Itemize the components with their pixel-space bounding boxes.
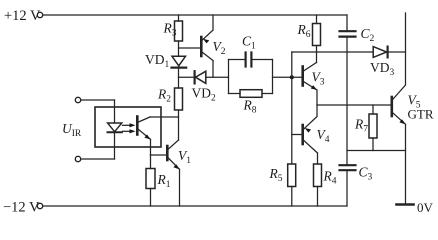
svg-text:R7: R7 [354, 117, 368, 135]
svg-text:0V: 0V [417, 200, 434, 215]
capacitor C1 / resistor R8 parallel network [229, 34, 273, 94]
capacitor C2 [340, 15, 375, 44]
resistor R1 [146, 155, 171, 206]
wire emitter line [347, 150, 406, 152]
resistor R3 [163, 15, 183, 56]
wire bottom -12V rail [43, 205, 347, 207]
transistor V3 (NPN) [303, 63, 325, 106]
svg-text:R5: R5 [269, 166, 283, 184]
diode VD3 [370, 47, 406, 78]
wire RC output to V3 base [273, 76, 303, 78]
resistor R8 [229, 90, 273, 116]
svg-text:+12 V: +12 V [4, 8, 41, 24]
resistor R6 [297, 15, 321, 63]
wire base bus vertical [291, 52, 293, 164]
svg-text:R8: R8 [243, 98, 257, 116]
svg-text:R4: R4 [323, 169, 337, 187]
diode VD1 [145, 52, 186, 88]
svg-text:GTR: GTR [408, 107, 434, 122]
wire node R2/V1 collector [150, 117, 179, 140]
-12V terminal [3, 200, 43, 216]
input terminal top [75, 97, 114, 102]
svg-text:VD2: VD2 [192, 86, 217, 104]
svg-text:R1: R1 [157, 172, 171, 190]
svg-text:C3: C3 [359, 165, 373, 183]
wire output node to V5 base [317, 104, 392, 106]
svg-text:VD3: VD3 [370, 60, 395, 78]
transistor V4 (PNP) [292, 105, 330, 164]
wire top +12V rail [43, 14, 347, 16]
svg-text:V4: V4 [317, 127, 330, 145]
svg-text:V3: V3 [312, 70, 325, 88]
capacitor C3 [340, 165, 373, 207]
resistor R2 [157, 87, 183, 118]
node junction dot [290, 75, 294, 79]
transistor V2 (PNP) [201, 15, 225, 77]
LED inside optocoupler [108, 100, 122, 159]
wire center bus vertical [346, 37, 348, 166]
svg-text:UIR: UIR [62, 121, 82, 139]
input terminal bottom [75, 156, 114, 161]
light arrows [123, 123, 136, 133]
transistor V5 (GTR) [392, 13, 434, 205]
wire V2 base [179, 47, 202, 49]
0V terminal [397, 200, 434, 215]
svg-text:R2: R2 [157, 87, 171, 105]
svg-text:R6: R6 [297, 22, 311, 40]
phototransistor [137, 117, 150, 156]
svg-text:V2: V2 [213, 39, 226, 57]
svg-text:−12 V: −12 V [3, 200, 40, 216]
svg-text:C1: C1 [242, 34, 256, 52]
diode VD2 [179, 71, 229, 103]
transistor V1 [167, 140, 191, 206]
resistor R7 [354, 105, 377, 151]
svg-text:C2: C2 [361, 26, 375, 44]
wire VD3 anode line [292, 51, 373, 53]
wire V1 base [151, 154, 168, 156]
+12V terminal [4, 8, 43, 24]
resistor R4 [314, 164, 337, 206]
optocoupler U_IR box [62, 107, 161, 147]
svg-text:V1: V1 [178, 148, 191, 166]
resistor R5 [269, 164, 296, 206]
svg-text:VD1: VD1 [145, 52, 170, 70]
